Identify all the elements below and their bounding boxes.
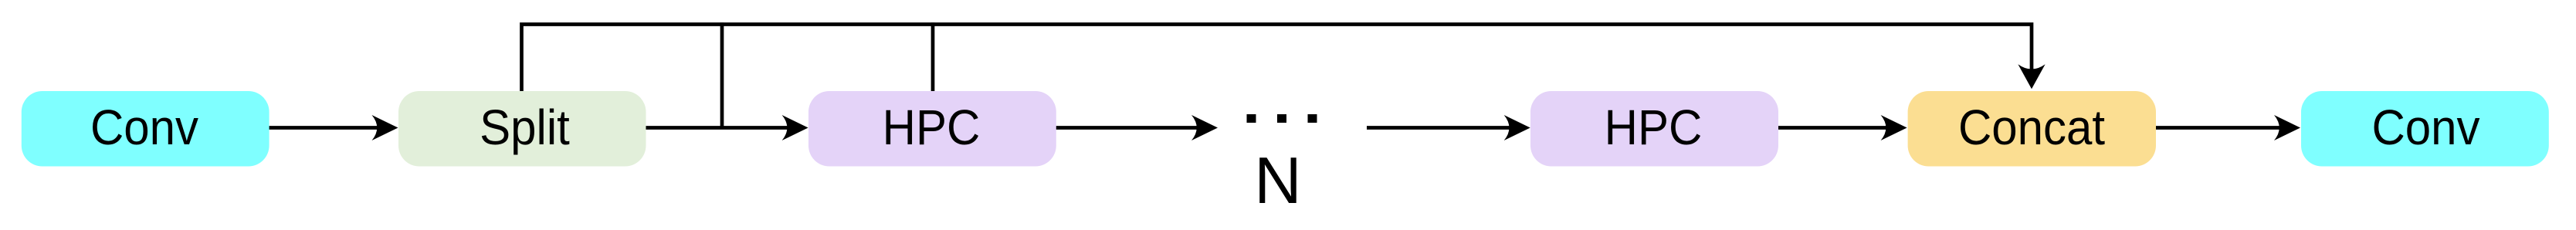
- arrowhead down into Concat top: [2018, 64, 2045, 89]
- block Concat: [1908, 91, 2156, 167]
- svg-text:Conv: Conv: [90, 100, 198, 155]
- arrow HPC to Concat: [1776, 126, 1886, 130]
- block HPC (first): [808, 91, 1056, 167]
- arrow Conv to Split: [267, 126, 378, 130]
- svg-text:HPC: HPC: [1605, 100, 1703, 155]
- svg-text:Concat: Concat: [1958, 100, 2105, 155]
- block Conv (second): [2301, 91, 2549, 167]
- block Conv (first): [22, 91, 269, 167]
- svg-text:HPC: HPC: [883, 100, 981, 155]
- arrow HPC to ellipsis: [1054, 126, 1197, 130]
- ellipsis dots: [1247, 114, 1256, 123]
- arrow ellipsis to HPC: [1367, 126, 1510, 130]
- wire skip-connection rail: Split top up, across, down toward Concat: [522, 25, 2032, 92]
- arrow Concat to Conv: [2154, 126, 2279, 130]
- wire vertical drop from rail into HPC top: [931, 22, 935, 92]
- svg-text:Conv: Conv: [2371, 100, 2479, 155]
- svg-text:Split: Split: [480, 100, 570, 155]
- svg-text:N: N: [1254, 144, 1301, 218]
- wire vertical branch from rail to Split-HPC arrow: [720, 22, 724, 129]
- block Split: [398, 91, 646, 167]
- block HPC (second): [1530, 91, 1778, 167]
- arrow Split to HPC: [644, 126, 788, 130]
